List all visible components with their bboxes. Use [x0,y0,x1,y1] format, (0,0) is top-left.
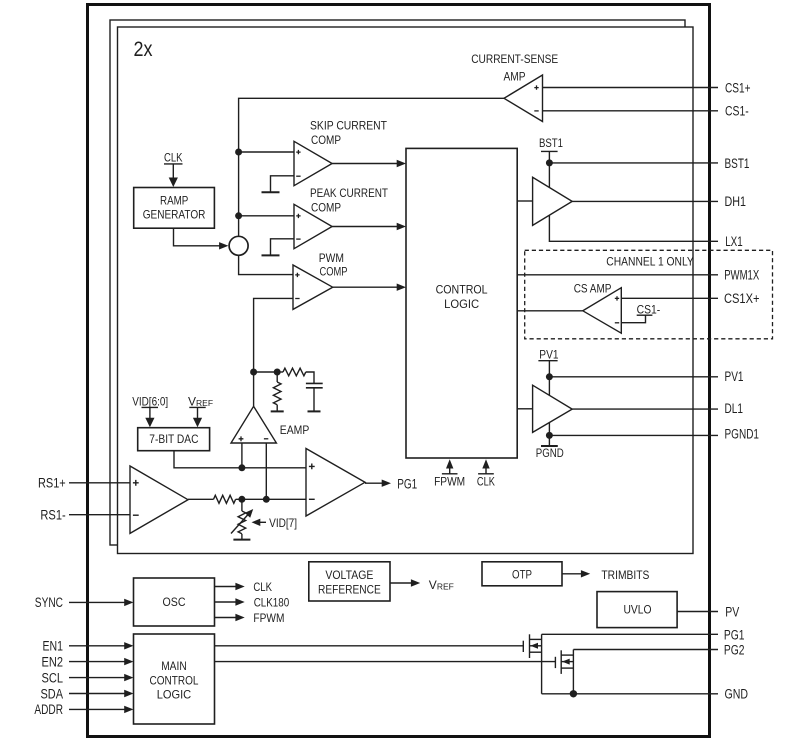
wire dac output to comparator plus [174,451,306,468]
svg-text:PV1: PV1 [539,347,558,361]
svg-text:GND: GND [725,687,749,702]
svg-text:CONTROL: CONTROL [150,673,199,687]
node dot eamp output [250,369,257,376]
voltage reference box [309,562,390,601]
VREF net label top [188,395,213,409]
svg-text:VID[7]: VID[7] [269,516,297,530]
svg-text:DH1: DH1 [725,194,747,209]
peak current comp label [310,186,389,215]
minus marker eamp [264,438,268,440]
resistor R2 horizontal feedback [277,368,314,383]
svg-text:PG1: PG1 [724,627,745,642]
svg-text:VOLTAGE: VOLTAGE [325,568,373,582]
svg-text:GENERATOR: GENERATOR [143,208,206,222]
7-bit dac box [138,428,210,451]
svg-text:BST1: BST1 [725,156,750,171]
outer border frame [88,5,710,737]
wire control logic to DL1 driver [517,408,532,410]
capacitor C1 [306,383,323,411]
minus marker pg1 comp [309,498,315,500]
svg-text:CLK: CLK [253,580,272,594]
plus marker pg1 comp [309,464,315,470]
svg-text:7-BIT DAC: 7-BIT DAC [149,432,198,446]
PGND ground symbol [536,435,564,460]
svg-text:RS1-: RS1- [40,508,65,523]
svg-text:CONTROL: CONTROL [436,283,488,297]
summing node circle [229,236,248,255]
plus marker eamp [239,436,244,441]
EAMP U8 [231,406,276,443]
resistor R3 series [214,495,236,503]
svg-text:EAMP: EAMP [280,423,310,437]
plus marker rs1 amp [133,480,139,486]
node dot skip comp input [235,149,242,156]
current-sense amp U1 [504,75,543,122]
pwm comp label [319,251,348,279]
wire CS1- stub to cs amp minus [621,315,645,323]
node dot rheostat [238,496,245,503]
svg-text:MAIN: MAIN [161,659,187,673]
svg-text:2x: 2x [134,38,153,61]
skip current comp U2 [294,141,332,185]
control logic box [406,148,517,458]
skip current comp label [310,119,388,147]
DL1 driver U7 [533,385,573,432]
plus marker peak comp [296,214,300,218]
ground bar peak comp [262,254,280,256]
svg-text:AMP: AMP [504,70,526,84]
node dot BST1 [546,159,553,166]
svg-text:ADDR: ADDR [34,702,63,717]
svg-text:CURRENT-SENSE: CURRENT-SENSE [471,52,558,66]
otp box [482,562,562,586]
wire SYNC pin arrow [69,599,134,606]
wire to skip comp plus [239,151,294,153]
svg-text:COMP: COMP [311,201,341,215]
wire pwm comp minus down to eamp node [254,298,293,406]
RS1 diff amp U9 [130,466,188,533]
DH1 driver U5 [533,177,573,225]
front page sheet [118,27,694,554]
plus marker cs amp ch1 [615,296,619,300]
node dot dac line [238,464,245,471]
minus marker rs1 amp [133,514,139,516]
wire SCL pin arrow [69,674,134,681]
pwm comp U4 [293,265,333,309]
wire DH1 pin [572,200,718,202]
wire cs amp output rail [239,98,504,236]
wire PWM1X pin [517,274,718,276]
wire RS1- pin [69,514,130,516]
wire VID arrow into dac [145,407,154,427]
svg-text:PGND: PGND [536,446,564,460]
minus marker pwm comp [295,298,299,300]
transistor Q2 [555,650,573,694]
node dot GND [570,690,577,697]
node dot peak comp input [235,212,242,219]
plus marker skip comp [296,150,300,154]
resistor R1 vertical feedback [271,372,284,411]
wire CS1- pin [543,110,719,112]
svg-text:FPWM: FPWM [434,475,465,489]
wire BST1 rail into DH1 driver [548,163,550,188]
rheostat VID7 R4 [231,499,253,539]
control logic label [436,283,488,312]
svg-text:TRIMBITS: TRIMBITS [601,568,649,582]
wire cs amp output to control logic [517,310,583,312]
wire peak comp minus to ground [271,239,295,256]
wire skip comp minus to ground [271,176,295,192]
wire CS1X+ pin [621,297,718,299]
wire CLK180 output arrow [215,596,290,610]
main control logic box [134,634,215,724]
wire PV pin [677,611,718,613]
svg-text:DL1: DL1 [725,401,744,416]
svg-text:PV1: PV1 [725,369,744,384]
svg-text:RAMP: RAMP [160,194,188,208]
svg-text:LOGIC: LOGIC [444,297,479,311]
node dot PGND [546,432,553,439]
svg-text:SKIP CURRENT: SKIP CURRENT [310,119,388,133]
wire control logic to DH1 driver [517,200,532,202]
wire peak comp output [332,223,406,230]
plus marker pwm comp [295,273,299,277]
svg-text:LOGIC: LOGIC [157,688,192,702]
wire PGND rail from driver [548,423,550,436]
wire FPWM output arrow [215,611,285,625]
wire VID7 arrow [252,516,298,530]
node dot PV1 [546,373,553,380]
svg-text:PG1: PG1 [397,477,417,492]
wire skip comp output [332,160,406,167]
svg-text:CS1X+: CS1X+ [724,291,760,306]
svg-text:CLK: CLK [477,475,495,489]
wire RS1+ pin [69,482,130,484]
wire ADDR pin arrow [69,706,134,713]
VID[6:0] net label [132,395,168,409]
svg-text:CLK180: CLK180 [254,596,290,610]
wire rs1 amp output [188,498,214,500]
voltage reference label [318,568,381,597]
minus marker cs amp ch1 [615,322,619,324]
wire eamp node [254,371,278,373]
wire EN2 pin arrow [69,658,134,665]
wire SDA pin arrow [69,690,134,697]
minus marker peak comp [296,238,300,240]
CLK input arrow [478,459,494,474]
FPWM input arrow [442,459,458,474]
wire PG2 pin [573,649,718,651]
svg-text:LX1: LX1 [725,234,743,249]
ground bar skip comp [262,191,280,193]
PV1 net label [538,347,558,376]
wire DL1 pin [572,408,718,410]
wire ramp generator to summing node [174,228,229,249]
svg-text:OTP: OTP [512,568,532,582]
svg-text:COMP: COMP [320,265,348,279]
CS amp U6 [583,288,622,334]
svg-text:UVLO: UVLO [624,603,652,617]
ramp generator box [134,188,215,229]
wire VREF arrow into dac [193,407,202,427]
svg-text:REFERENCE: REFERENCE [318,583,381,597]
svg-text:VID[6:0]: VID[6:0] [132,395,168,409]
transistor Q1 [523,634,541,694]
CS1- net label [637,303,661,317]
PG1 comparator U10 [306,449,365,517]
uvlo box [597,592,677,628]
svg-text:CS1-: CS1- [725,104,749,119]
wire CLK arrow into ramp generator [169,164,178,187]
wire EN1 pin arrow [69,642,134,649]
wire CS1+ pin [543,87,719,89]
minus marker skip comp [296,175,300,177]
svg-text:BST1: BST1 [539,136,563,150]
wire BST1 pin [549,162,718,164]
svg-text:PWM1X: PWM1X [724,268,759,283]
main control logic label [150,659,199,702]
wire eamp minus input [265,443,267,499]
svg-text:CS1+: CS1+ [725,80,751,95]
svg-text:CLK: CLK [164,150,183,164]
plus marker cs amp [534,85,538,89]
wire PG1 pin [542,633,718,635]
wire CLK output arrow [215,580,273,594]
wire GND pin [542,693,718,695]
svg-text:EN2: EN2 [42,654,64,669]
wire PV1 rail into DL1 driver [548,377,550,396]
wire pwm comp output [333,284,406,291]
svg-text:SYNC: SYNC [35,595,63,610]
wire PGND1 pin [549,434,718,436]
ramp generator label [143,194,206,222]
svg-text:SCL: SCL [42,670,64,685]
svg-text:OSC: OSC [163,595,186,609]
wire node to comparator minus [236,498,306,500]
svg-text:SDA: SDA [41,686,64,701]
wire LX1 rail from driver [549,215,718,241]
svg-text:EN1: EN1 [43,639,64,654]
svg-text:PV: PV [725,604,739,619]
wire VREF output arrow [390,578,454,592]
svg-text:PEAK CURRENT: PEAK CURRENT [310,186,389,200]
wire PV1 pin [549,376,718,378]
wire main logic to Q2 gate [215,661,556,663]
svg-text:CS AMP: CS AMP [574,282,612,296]
svg-text:PGND1: PGND1 [725,427,760,442]
svg-text:CHANNEL 1 ONLY: CHANNEL 1 ONLY [606,254,694,268]
wire bus below summing node to pwm comp plus [239,255,293,274]
svg-text:FPWM: FPWM [253,611,284,625]
wire pg1 comp output arrow [365,477,417,492]
osc box [134,578,215,626]
node dot eamp minus [263,496,270,503]
node dot feedback [274,369,281,376]
svg-text:PWM: PWM [319,251,344,265]
wire to peak comp plus [239,215,294,217]
wire eamp plus input [241,443,243,468]
peak current comp U3 [294,204,332,248]
wire main logic to Q1 gate [215,645,524,647]
svg-text:COMP: COMP [311,133,341,147]
BST1 net label [539,136,563,163]
dashed channel 1 only box [525,250,773,338]
svg-text:RS1+: RS1+ [38,476,66,491]
CLK label above ramp generator [164,150,183,164]
svg-text:PG2: PG2 [724,643,745,658]
current-sense amp label [471,52,558,84]
back page sheet [110,20,685,545]
wire TRIMBITS output arrow [562,568,649,582]
minus marker cs amp [534,110,538,112]
